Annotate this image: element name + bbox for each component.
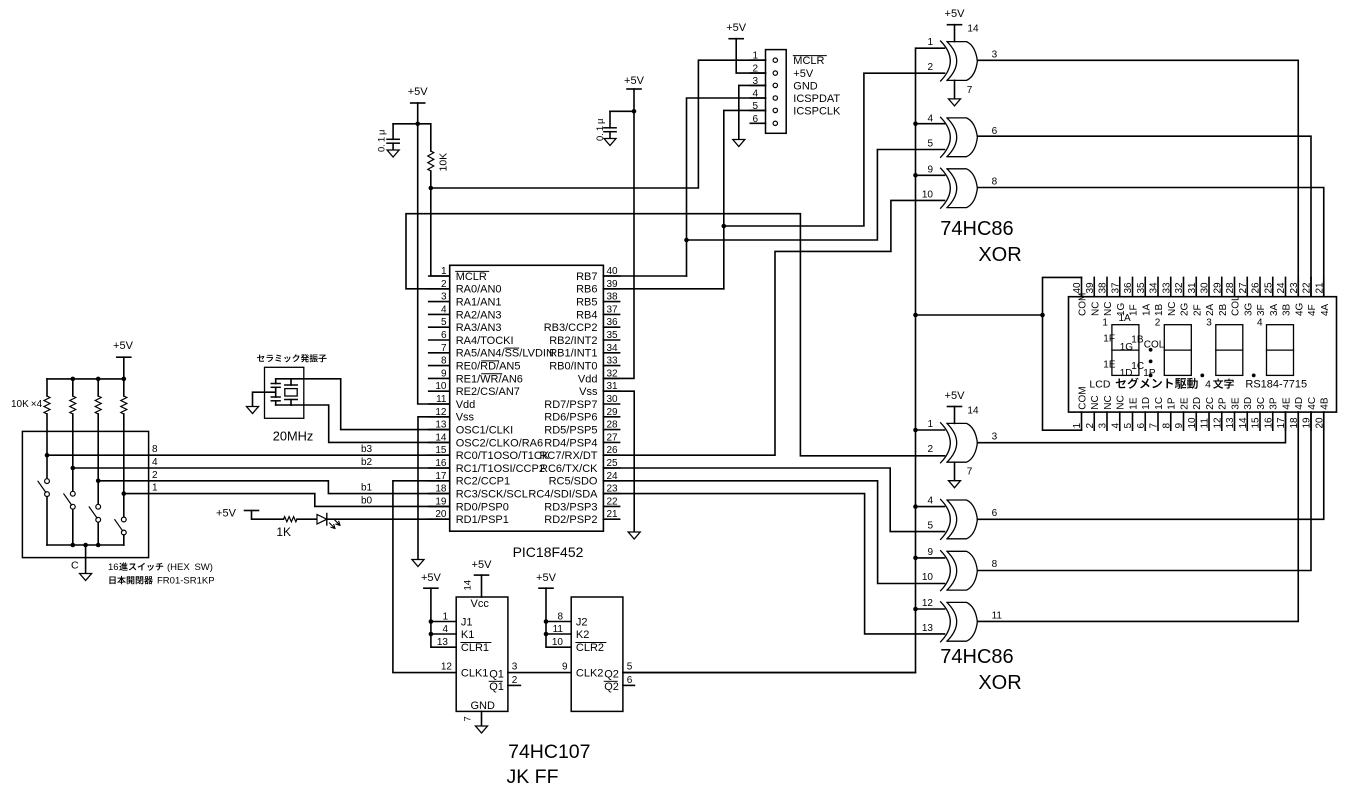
XOR gate U3c 74HC86 [941,551,978,591]
svg-text:1F: 1F [1103,334,1115,345]
svg-text:12: 12 [1212,417,1223,429]
U1 pin 33 stub [603,365,619,367]
LCD top pin 33 stub [1170,277,1172,296]
switch contact col2 [70,491,75,496]
SW1 caption line2: Nihon Kaiheiki FR01-SR1KP [109,576,115,584]
svg-text:15: 15 [1251,417,1262,429]
LCD bottom pin 13 stub [1234,412,1236,430]
U1 pin 9 stub [429,377,450,379]
junction J1 [429,619,434,624]
wire U1 pin12 Vss to ground [418,417,450,560]
svg-text:1D: 1D [1141,397,1152,410]
svg-text:38: 38 [607,292,619,303]
svg-text:NC: NC [1116,395,1127,409]
wire U1 pin39 RB6 [603,288,723,290]
wire to K2 [546,633,571,635]
svg-text:RD1/PSP1: RD1/PSP1 [456,514,509,526]
svg-text:+5V: +5V [536,572,557,584]
stub Q1bar pin2 [508,684,521,686]
svg-text:Q1: Q1 [489,681,504,693]
LCD top pin 21 stub [1323,277,1325,296]
U1 pin 27 stub [603,441,619,443]
wire bus to LCD COM [916,314,1043,316]
svg-text:RA1/AN1: RA1/AN1 [456,297,502,309]
svg-text:7: 7 [1149,423,1160,429]
wire U3 pin11 to LCD pin18 [977,412,1298,621]
U1 pin 23 stub [603,493,619,495]
svg-text:MCLR: MCLR [793,55,824,67]
U1 pin 40 stub [603,275,619,277]
LCD digit 3 outline [1216,325,1243,376]
wire +5V to CLR1 [431,588,456,647]
svg-text:Q1: Q1 [489,668,504,680]
decimal point 1P dot [1149,374,1153,378]
U1 pin 30 stub [603,403,619,405]
svg-text:10K ×4: 10K ×4 [11,399,43,410]
svg-text:1C: 1C [1131,361,1144,372]
U1 pin 20 stub [429,518,450,520]
svg-text:b1: b1 [361,483,373,494]
wire RC6 pin25 to U3 pin5 [603,468,944,532]
svg-text:34: 34 [607,343,619,354]
svg-text:2C: 2C [1205,397,1216,410]
svg-text:RB0/INT0: RB0/INT0 [549,361,597,373]
svg-text:Q2: Q2 [604,668,619,680]
junction bus y=123.7 [913,121,918,126]
U1 pin 37 stub [603,313,619,315]
LCD top pin 25 stub [1272,277,1274,296]
XOR gate U2b 74HC86 [941,117,978,157]
wire switch 2 to RC3 pin18 (b1) [98,481,450,494]
LCD bottom pin 4 stub [1119,412,1121,430]
svg-text:ICSPCLK: ICSPCLK [793,105,841,117]
wire switch to common col4 [123,535,125,545]
svg-text:33: 33 [607,356,619,367]
svg-text:4G: 4G [1294,302,1305,316]
svg-text:NC: NC [1103,302,1114,316]
switch contact col3 [96,504,101,509]
svg-text:6: 6 [752,114,758,125]
hex switch SW1 box [22,431,148,557]
IC U1 PIC18F452 body [450,265,604,531]
wire U1 pin40 RB7 [603,275,686,277]
svg-text:1B: 1B [1131,335,1144,346]
svg-text:LCD: LCD [1089,379,1110,391]
svg-text:3: 3 [512,661,518,672]
svg-text:32: 32 [1174,282,1185,294]
+5V supply at U4 Vcc pin14 [475,574,489,576]
decimal point 3P dot [1252,374,1256,378]
wire R to tap col4 [123,414,125,494]
svg-text:7: 7 [967,85,973,96]
svg-text:RE1/WR/AN6: RE1/WR/AN6 [456,373,523,385]
wire U2 pin8 to LCD pin21 [977,188,1323,297]
LCD bottom pin 15 stub [1259,412,1261,430]
LCD display module [1069,297,1337,412]
ground below U1 right [628,532,640,539]
svg-text:23: 23 [1289,282,1300,294]
svg-text:5: 5 [927,521,933,532]
junction ICSPCLK/XOR [722,224,727,229]
svg-text:12: 12 [441,661,453,672]
svg-text:+5V: +5V [945,390,966,402]
ground below switch [80,574,92,581]
wire RC4 pin23 to U3 pin13 [603,494,944,634]
svg-text:RD0/PSP0: RD0/PSP0 [456,501,509,513]
svg-text:3C: 3C [1256,397,1267,410]
svg-text:1: 1 [927,37,933,48]
svg-text:3A: 3A [1269,303,1280,316]
svg-text:1C: 1C [1154,397,1165,410]
svg-text:39: 39 [1085,282,1096,294]
svg-text:1E: 1E [1103,360,1116,371]
LCD bottom pin 3 stub [1106,412,1108,430]
svg-text:9: 9 [927,547,933,558]
LCD digit 2 middle segment [1164,349,1191,351]
wire RC5 pin24 to U3 pin10 [603,481,944,584]
svg-text:(HEX SW): (HEX SW) [167,562,213,573]
LCD bottom pin 1 stub [1081,412,1083,430]
svg-text:1: 1 [152,483,158,494]
resistor R1 10K [418,124,431,151]
svg-text:RC2/CCP1: RC2/CCP1 [456,476,510,488]
wire resonator to OSC1 pin13 [291,379,450,430]
svg-text:21: 21 [1314,282,1325,294]
svg-text:1E: 1E [1129,397,1140,410]
svg-text:22: 22 [1302,282,1313,294]
wire Q1 pin3 to CLK2 pin9 [508,672,571,674]
ground at U4 pin7 [476,726,488,733]
wire resonator to ground [253,392,276,406]
wire bus to gate input [916,429,945,431]
svg-text:33: 33 [1161,282,1172,294]
svg-text:RS184-7715: RS184-7715 [1245,379,1307,391]
wire switch 1 to RD0 pin19 (b0) [124,494,450,507]
U1 pin 2 stub [429,288,450,290]
svg-text:NC: NC [1167,302,1178,316]
wire rail to R4 [97,379,99,396]
svg-text:9: 9 [927,164,933,175]
svg-text:J1: J1 [461,616,473,628]
wire +5V to R 1K [252,511,284,520]
wire switch to common col1 [46,497,48,545]
wire U3 pin6 to LCD pin20 [977,412,1323,519]
svg-text:36: 36 [1123,282,1134,294]
svg-text:C: C [71,560,79,572]
svg-text:PIC18F452: PIC18F452 [513,544,584,560]
svg-text:5: 5 [627,661,633,672]
U1 pin 25 stub [603,467,619,469]
svg-text:RC5/SDO: RC5/SDO [549,476,598,488]
svg-text:RB5: RB5 [576,297,597,309]
U1 pin 32 stub [603,377,619,379]
ground at upper 74HC86 pin 7 [949,99,961,106]
junction MCLR net [429,186,434,191]
wire bus to gate input [916,557,945,559]
wire U2 pin6 to LCD pin22 [977,136,1311,297]
wire RC2 pin17 to CLK1 pin12 [393,481,456,673]
svg-text:RC1/T1OSI/CCP2: RC1/T1OSI/CCP2 [456,463,545,475]
svg-text:5: 5 [441,317,447,328]
ground below C2 [604,139,616,146]
+5V supply at U4a JK inputs [424,587,438,589]
svg-text:35: 35 [607,330,619,341]
resonator crystal element [290,379,292,385]
svg-text:NC: NC [1090,395,1101,409]
wire R to tap col2 [72,414,74,468]
U1 pin 4 stub [429,313,450,315]
svg-text:RE0/RD/AN5: RE0/RD/AN5 [456,361,521,373]
wire MCLR to U1 pin1 [431,188,450,276]
svg-text:1: 1 [927,419,933,430]
svg-text:74HC86: 74HC86 [940,218,1013,240]
svg-text:20: 20 [1314,417,1325,429]
XOR gate U3b 74HC86 [941,499,978,539]
+5V power [948,24,962,26]
svg-text:2P: 2P [1218,397,1229,410]
J1 pin 2 stub [750,72,765,74]
svg-text:RA0/AN0: RA0/AN0 [456,284,502,296]
svg-text:17: 17 [1276,417,1287,429]
svg-text:16: 16 [1263,417,1274,429]
U1 pin 19 stub [429,505,450,507]
U1 pin 24 stub [603,480,619,482]
svg-text:4: 4 [441,304,447,315]
wire R to tap col1 [46,414,48,455]
LCD bottom pin 10 stub [1195,412,1197,430]
svg-text:ICSPDAT: ICSPDAT [793,93,840,105]
svg-text:6: 6 [627,675,633,686]
svg-text:19: 19 [1302,417,1313,429]
resistor 10K pullup col4 [121,396,127,414]
svg-text:RD5/PSP5: RD5/PSP5 [544,425,597,437]
svg-text:3: 3 [1206,318,1212,329]
wire U3 pin7 to ground [954,462,956,481]
svg-text:4: 4 [1205,379,1211,391]
svg-text:Vss: Vss [579,386,598,398]
svg-text:6: 6 [1136,423,1147,429]
svg-text:RA3/AN3: RA3/AN3 [456,322,502,334]
svg-text:+5V: +5V [624,75,645,87]
svg-text:RC4/SDI/SDA: RC4/SDI/SDA [528,489,598,501]
wire C1 top lead [392,124,394,140]
wire +5V to J1 pin2 [736,39,765,73]
svg-text:8: 8 [441,356,447,367]
junction pullup rail [96,377,101,382]
ground below C1 [387,150,399,157]
svg-text:1A: 1A [1119,313,1132,324]
svg-text:28: 28 [1225,282,1236,294]
junction +5V/C2 [632,109,637,114]
svg-text:RB3/CCP2: RB3/CCP2 [544,322,598,334]
junction bus y=557.9 [913,556,918,561]
U1 pin 22 stub [603,505,619,507]
LCD bottom pin 5 stub [1132,412,1134,430]
svg-text:J2: J2 [576,616,588,628]
svg-text:28: 28 [607,420,619,431]
U1 pin 39 stub [603,288,619,290]
resistor 10K pullup col2 [70,396,76,414]
svg-text:14: 14 [463,580,474,591]
ceramic resonator X1 box [265,367,304,418]
U1 pin 6 stub [429,339,450,341]
wire U3 pin3 to LCD pin17 [977,412,1285,443]
svg-text:30: 30 [607,394,619,405]
svg-text:0. 1 μ: 0. 1 μ [377,130,388,152]
svg-text:1: 1 [1102,318,1108,329]
U1 pin 11 stub [429,403,450,405]
junction pullup rail [71,377,76,382]
resistor 10K pullup col3 [95,396,101,414]
svg-text:4E: 4E [1282,397,1293,410]
svg-text:7: 7 [463,716,474,721]
svg-text:+5V: +5V [421,572,442,584]
svg-text:10: 10 [552,637,564,648]
LCD digit 3 middle segment [1216,349,1243,351]
wire LED to RD1 pin20 [327,518,449,520]
svg-text:2D: 2D [1192,397,1203,410]
XOR gate U2a 74HC86 [941,41,978,81]
svg-text:9: 9 [441,368,447,379]
svg-text:4A: 4A [1320,303,1331,316]
LCD top pin 28 stub [1234,277,1236,296]
svg-text:2: 2 [512,675,518,686]
wire U3 pin8 to LCD pin19 [977,412,1311,570]
wire tap to switch col4 [123,494,125,517]
LCD bottom pin 17 stub [1285,412,1287,430]
svg-text:COM: COM [1078,386,1089,409]
wire J1 pin3 GND [739,85,766,139]
svg-text:1D: 1D [1120,368,1133,379]
svg-text:3D: 3D [1243,397,1254,410]
svg-text:RB4: RB4 [576,309,597,321]
junction bus y=609.0 [913,607,918,612]
wire R2 to LED [297,518,317,520]
svg-text:1: 1 [442,611,448,622]
junction bus/LCD COM [913,313,918,318]
svg-text:RB1/INT1: RB1/INT1 [549,348,597,360]
wire to J1 [431,621,456,623]
U1 pin 18 stub [429,493,450,495]
svg-text:10K: 10K [438,153,450,172]
junction J2 [544,619,549,624]
svg-text:CLK2: CLK2 [576,667,604,679]
svg-text:2G: 2G [1180,302,1191,316]
svg-text:RC0/T1OSO/T1CK: RC0/T1OSO/T1CK [456,450,550,462]
svg-text:1: 1 [1072,423,1083,429]
svg-text:12: 12 [922,598,934,609]
wire rail to R2 [46,379,48,396]
wire C1 to ground [392,143,394,150]
svg-text:JK FF: JK FF [507,766,559,788]
junction bus y=175.3 [913,173,918,178]
svg-text:b3: b3 [361,444,373,455]
U1 pin 10 stub [429,390,450,392]
svg-text:26: 26 [1251,282,1262,294]
svg-text:6: 6 [441,330,447,341]
wire tap to switch col1 [46,455,48,478]
svg-text:3P: 3P [1269,397,1280,410]
svg-text:11: 11 [1200,418,1211,429]
+5V supply right of U1 [627,88,641,90]
colon dot upper [1149,348,1153,352]
svg-text:29: 29 [1212,282,1223,294]
+5V supply at ICSP [729,38,743,40]
J1 pin 5 stub [750,109,765,111]
+5V supply at switch pullups [117,356,131,358]
stub Q2bar pin6 [623,684,635,686]
LCD top pin 31 stub [1195,277,1197,296]
LCD bottom pin 19 stub [1310,412,1312,430]
wire switch common rail [47,544,124,546]
wire R to tap col3 [97,414,99,481]
svg-text:Vcc: Vcc [471,598,490,610]
svg-text:4D: 4D [1294,397,1305,410]
LCD top pin 26 stub [1259,277,1261,296]
svg-text:1P: 1P [1143,368,1156,379]
ground below U1 left [412,560,424,567]
svg-text:RD4/PSP4: RD4/PSP4 [544,437,597,449]
svg-text:8: 8 [992,559,998,570]
svg-text:13: 13 [922,623,934,634]
svg-text:4: 4 [152,457,158,468]
svg-text:3E: 3E [1231,397,1242,410]
svg-text:FR01-SR1KP: FR01-SR1KP [157,576,215,587]
wire ICSPDAT to RB7 [687,98,766,276]
LCD digit 4 middle segment [1267,349,1294,351]
wire U2 pin3 to LCD pin23 [977,60,1298,296]
svg-text:30: 30 [1200,282,1211,294]
svg-text:6: 6 [992,508,998,519]
LCD bottom pin 8 stub [1170,412,1172,430]
J1 pin 4 stub [750,97,765,99]
J1 pin 3 stub [750,84,765,86]
svg-text:RA2/AN3: RA2/AN3 [456,309,502,321]
wire resonator to OSC2 pin14 [291,405,450,442]
svg-text:RB2/INT2: RB2/INT2 [549,335,597,347]
LCD top pin 27 stub [1246,277,1248,296]
U1 pin 21 stub [603,518,619,520]
svg-text:NC: NC [1090,302,1101,316]
resistor R2 1K [284,517,298,522]
U1 pin 16 stub [429,467,450,469]
wire Q2 pin5 to XOR bus [623,672,916,674]
svg-text:+5V: +5V [472,559,493,571]
junction COM bracket [1040,313,1045,318]
U1 pin 3 stub [429,301,450,303]
svg-text:10: 10 [922,189,934,200]
LCD digit 2 outline [1164,325,1191,376]
XOR gate U2c 74HC86 [941,168,978,208]
wire to K1 [431,633,456,635]
wire resonator bottom node [276,404,291,406]
LCD bottom pin 18 stub [1297,412,1299,430]
U1 pin 15 stub [429,454,450,456]
J1 pin 1 stub [750,59,765,61]
svg-text:25: 25 [1263,282,1274,294]
svg-text:7: 7 [967,467,973,478]
LCD bottom pin 2 stub [1093,412,1095,430]
svg-text:+5V: +5V [216,508,237,520]
wire rail to R5 [123,379,125,396]
U1 pin 7 stub [429,352,450,354]
LCD top pin 32 stub [1183,277,1185,296]
wire U2 pin7 to ground [954,80,956,99]
X1 caption: ceramic resonator [257,355,265,362]
svg-text:9: 9 [562,661,568,672]
U1 pin 31 stub [603,390,619,392]
svg-text:29: 29 [607,407,619,418]
